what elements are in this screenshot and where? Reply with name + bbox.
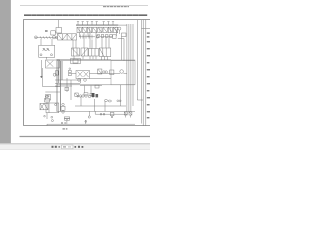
wire: risers to legend side: [137, 20, 143, 124]
scanned sheet top edge: [20, 5, 148, 7]
pump P3 and valves right-mid: [72, 69, 128, 83]
scanned sheet bottom edge: [20, 136, 151, 138]
page header text: SECTION - HYDRAULIC SYSTEM: [103, 6, 129, 7]
check valves CV2 CV3: [117, 100, 121, 102]
pump P1/P2 circle pair top right: [115, 27, 126, 36]
solenoid boxes row 2: [97, 35, 112, 38]
toolbar icons: [52, 146, 84, 148]
tank T1 T2 symbols: [124, 112, 132, 118]
viewer bottom toolbar: [0, 143, 150, 150]
wire: bus bundle verticals: [118, 24, 133, 112]
label 35: [45, 30, 48, 31]
relief valve RV1 chain: [55, 58, 80, 76]
viewer gray sidebar: [0, 0, 11, 143]
valve bank V1-V8 under manifold: [77, 27, 118, 32]
wire: block tails to bus: [74, 56, 108, 60]
wire: pressure manifold: [76, 24, 118, 26]
valve sub-blocks B1-B4: [72, 33, 111, 57]
wire: footer rail with motor M1: [44, 115, 135, 125]
valve block DV3 bottom-left cluster: [40, 95, 65, 121]
drawing number text below frame: [63, 128, 68, 129]
wire: center lattice crossings: [55, 61, 80, 112]
wire: staircase run with valve box: [43, 87, 60, 100]
legend text rows: [142, 28, 150, 118]
schematic frame: [24, 20, 151, 126]
solenoid caps S1-S8: [77, 22, 114, 25]
legend table borders: [143, 20, 146, 126]
check valve block CV1: [39, 39, 55, 60]
wire: return line under enclosure: [57, 84, 136, 86]
drawing title text row: [24, 15, 147, 16]
pump group P4-P8 low center cluster: [57, 85, 136, 118]
subsystem enclosure: [111, 60, 135, 85]
wire: double horizontal bus: [57, 59, 136, 60]
wire: elbow into enclosure: [118, 37, 124, 61]
wire: DV2 to enclosure link: [90, 78, 121, 106]
directional valve DV1 with arrow: [41, 60, 60, 87]
cylinder C1 with end circles: [35, 36, 58, 39]
directional valve DV2 block: [76, 71, 90, 82]
filter F1 box with inlet wire: [51, 20, 62, 35]
valve bank V9-V12 row 2: [58, 34, 117, 40]
